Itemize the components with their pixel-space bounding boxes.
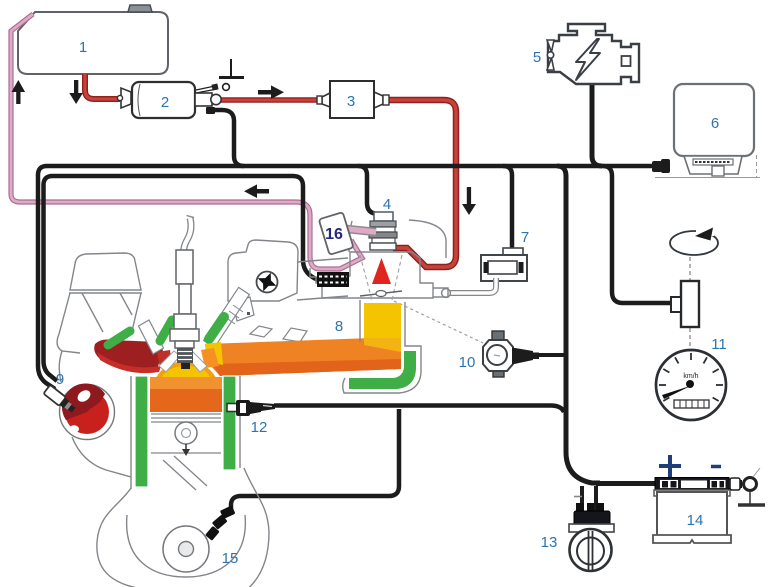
injector 4 stack	[369, 196, 397, 250]
svg-text:4: 4	[383, 196, 391, 213]
down arrow beside red line	[462, 187, 476, 215]
red fuel line tank to pump	[85, 74, 120, 99]
red fuel spray triangle	[372, 258, 391, 284]
left arrow on pink line	[244, 184, 269, 198]
battery positive wire	[596, 481, 658, 486]
svg-text:8: 8	[335, 318, 343, 335]
svg-text:2: 2	[161, 94, 169, 111]
piston pin	[175, 422, 197, 444]
engine warning icon 5	[548, 24, 639, 84]
sensor 15 wire	[231, 409, 399, 512]
venturi dashed walls	[360, 255, 402, 300]
right valve stem	[204, 287, 250, 347]
green cylinder liner right	[223, 376, 236, 470]
svg-text:13: 13	[541, 534, 558, 551]
speedometer 11	[656, 350, 726, 420]
plus symbol	[659, 455, 681, 477]
right cam housing	[228, 240, 298, 301]
battery top bar	[655, 478, 729, 491]
engine icon lightning bolt	[576, 39, 600, 80]
spark plug	[170, 250, 199, 348]
oxygen sensor 9	[43, 385, 77, 415]
pump terminal wires	[196, 86, 215, 90]
canister 16 pink hoses	[347, 229, 376, 232]
camshaft circle with star	[257, 272, 278, 293]
cam follower blocks	[233, 297, 254, 321]
wire drop to speed sensor	[603, 166, 671, 303]
canister 16	[319, 212, 354, 255]
idle actuator striped	[317, 272, 349, 287]
svg-text:10: 10	[459, 354, 476, 371]
small valve symbol left of 5	[547, 40, 554, 70]
battery body	[654, 490, 730, 496]
spark plug cable	[184, 218, 192, 253]
dark red exhaust manifold blob	[94, 340, 163, 372]
fuel pump 2	[117, 82, 229, 118]
piston rings	[151, 414, 221, 453]
knock sensor 12	[227, 404, 237, 412]
manifold outline	[343, 300, 421, 393]
ground symbol above pump	[219, 59, 244, 78]
wire drop to component 13 and battery	[557, 166, 600, 483]
left valve stem	[139, 320, 164, 354]
wire drop to injector 4	[358, 166, 384, 214]
throttle body outline	[310, 220, 448, 298]
dashed pointer line throttle to 10	[394, 301, 483, 343]
red fuel line filter to throttle	[388, 100, 456, 267]
fuel tank 1	[18, 5, 168, 74]
manifold green L band	[349, 351, 416, 389]
minus symbol	[711, 465, 721, 469]
connecting rod	[163, 456, 207, 490]
combustion chamber dome	[154, 361, 218, 392]
green cylinder liner left	[135, 376, 148, 487]
svg-text:11: 11	[711, 336, 727, 353]
harness trunk upper with left drop to sensor 9	[38, 166, 654, 389]
engine block outlines	[57, 258, 348, 587]
svg-text:km/h: km/h	[683, 373, 698, 380]
red fuel line pump to filter	[221, 97, 319, 103]
crank position sensor 15	[205, 505, 235, 540]
vacuum hose 7 to throttle	[449, 278, 496, 293]
sensor 10 knock sensor	[459, 331, 539, 377]
wire stubs to 13	[580, 486, 584, 512]
exhaust port ring	[60, 385, 115, 440]
svg-text:5: 5	[533, 49, 541, 66]
right arrow	[258, 85, 284, 99]
left valve cover	[70, 253, 141, 290]
green intake port patches	[108, 331, 130, 345]
fuel filter 3	[317, 81, 389, 118]
svg-text:1: 1	[79, 39, 87, 56]
engine icon stem	[592, 85, 602, 166]
component 7 pressure regulator	[481, 229, 529, 281]
svg-text:15: 15	[222, 550, 239, 567]
svg-text:9: 9	[56, 371, 64, 388]
wire drop to component 7	[503, 166, 512, 249]
component 13 ignition module	[541, 497, 614, 572]
svg-text:7: 7	[521, 229, 529, 246]
sensor 12 wire	[274, 406, 564, 413]
throttle plate	[360, 291, 402, 296]
up arrow	[12, 80, 26, 104]
harness trunk lower with drop to idle actuator	[44, 176, 321, 381]
cylinder walls	[130, 376, 132, 489]
ECU connector plug	[652, 161, 662, 172]
svg-text:12: 12	[251, 419, 268, 436]
svg-text:14: 14	[687, 512, 704, 529]
piston crown bands	[150, 377, 222, 389]
pink vapor return line	[11, 14, 362, 269]
svg-text:3: 3	[347, 93, 355, 110]
ECU 6	[655, 84, 760, 178]
battery negative wire and ground	[726, 468, 765, 505]
svg-text:6: 6	[711, 115, 719, 132]
rotation ellipse arrow	[670, 231, 718, 255]
pump outlet	[195, 93, 212, 106]
speed sensor	[681, 281, 699, 327]
crankshaft	[163, 526, 209, 572]
intake manifold runner 8	[205, 337, 401, 376]
dashed axis line	[689, 257, 691, 280]
tank cap	[128, 5, 152, 12]
down arrow below tank	[69, 80, 83, 104]
battery 14	[653, 455, 731, 543]
black wire pump to harness	[211, 110, 244, 166]
ECU connector	[684, 156, 742, 174]
svg-text:16: 16	[325, 226, 343, 243]
valve seat wedges	[159, 351, 180, 372]
sensor 10 wire	[535, 353, 564, 357]
